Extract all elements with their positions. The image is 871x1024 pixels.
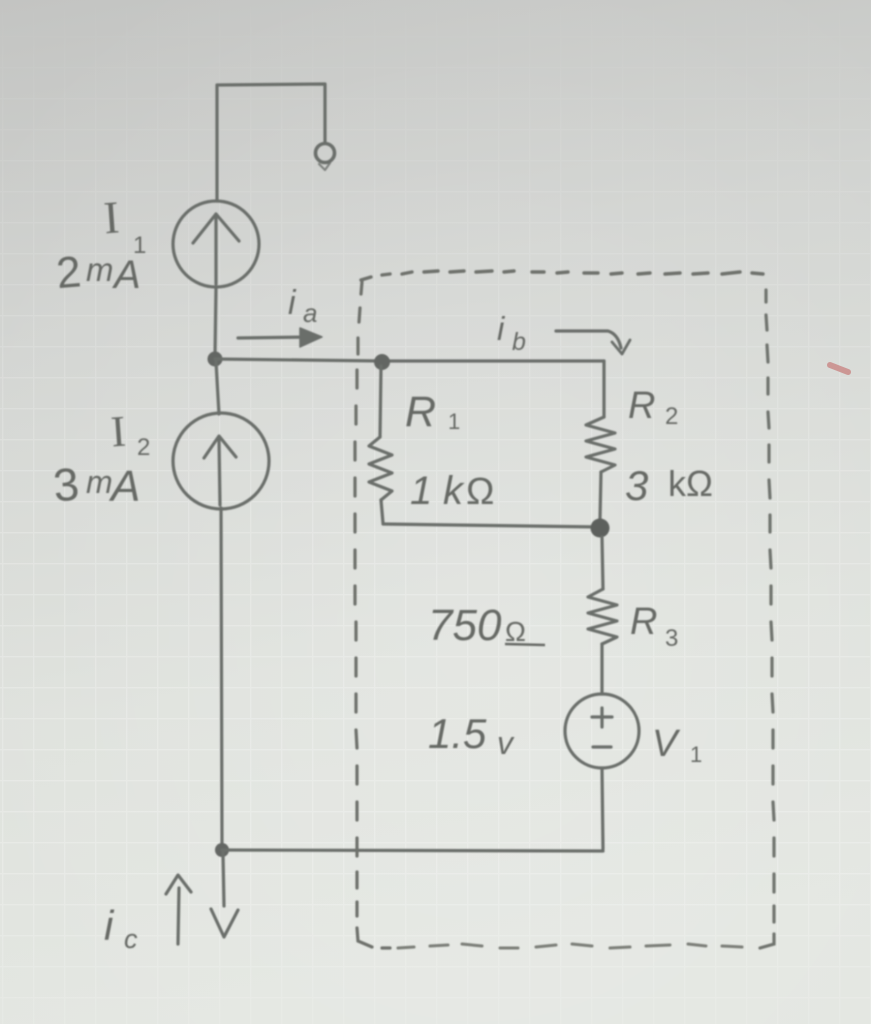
svg-text:3: 3 xyxy=(51,457,81,511)
current arrow i_c (up arrow) xyxy=(178,888,179,944)
svg-text:3: 3 xyxy=(625,462,648,509)
dashed box top edge xyxy=(361,271,763,280)
wire node A to I2 xyxy=(216,362,219,414)
svg-text:k: k xyxy=(443,469,465,513)
node A xyxy=(208,352,223,367)
svg-text:2: 2 xyxy=(137,434,150,461)
svg-text:2: 2 xyxy=(665,403,678,430)
svg-text:a: a xyxy=(303,298,317,328)
svg-text:2: 2 xyxy=(54,247,83,298)
wire R1 bottom to node C xyxy=(383,524,600,527)
dashed box left edge xyxy=(355,282,390,948)
wire node A to node B (horizontal) xyxy=(215,359,604,361)
resistor R3 xyxy=(602,537,603,589)
svg-text:750: 750 xyxy=(428,601,502,650)
svg-text:1: 1 xyxy=(448,409,460,434)
current source I2 xyxy=(173,413,269,509)
wire I1 to node A xyxy=(215,287,216,356)
voltage source V1 xyxy=(565,694,639,768)
wire top loop xyxy=(217,84,325,201)
dashed box xyxy=(355,271,774,948)
svg-text:A: A xyxy=(112,253,141,297)
svg-text:R: R xyxy=(630,601,657,643)
svg-text:c: c xyxy=(124,924,138,954)
svg-text:V: V xyxy=(652,723,681,765)
svg-text:1: 1 xyxy=(410,469,432,513)
svg-text:kΩ: kΩ xyxy=(668,463,713,504)
node B xyxy=(374,354,390,370)
svg-text:b: b xyxy=(512,328,526,356)
svg-text:1.5: 1.5 xyxy=(428,710,487,757)
node C xyxy=(591,519,610,538)
svg-text:R: R xyxy=(628,385,655,427)
current arrow i_b xyxy=(556,331,621,348)
current arrow i_a xyxy=(238,337,312,338)
bottom wire xyxy=(222,850,603,851)
bottom node xyxy=(215,843,229,857)
svg-text:Ω: Ω xyxy=(466,471,494,513)
dashed box bottom edge xyxy=(398,944,742,948)
open terminal xyxy=(316,144,335,163)
svg-text:Ω: Ω xyxy=(505,616,526,647)
red mark xyxy=(830,365,848,372)
svg-text:m: m xyxy=(86,251,114,288)
svg-text:v: v xyxy=(497,725,515,761)
dashed box right edge xyxy=(760,290,774,948)
svg-text:3: 3 xyxy=(665,625,678,652)
wire bottom stub with open arrowhead xyxy=(223,853,224,906)
resistor R1 xyxy=(380,366,381,437)
wire I2 to bottom node xyxy=(221,508,222,847)
svg-text:m: m xyxy=(86,464,113,500)
svg-text:R: R xyxy=(405,388,436,436)
resistor R2 xyxy=(602,361,605,417)
svg-text:A: A xyxy=(108,462,140,511)
svg-text:1: 1 xyxy=(690,742,702,767)
wire V1 to bottom xyxy=(602,768,603,849)
current source I1 xyxy=(173,201,259,287)
